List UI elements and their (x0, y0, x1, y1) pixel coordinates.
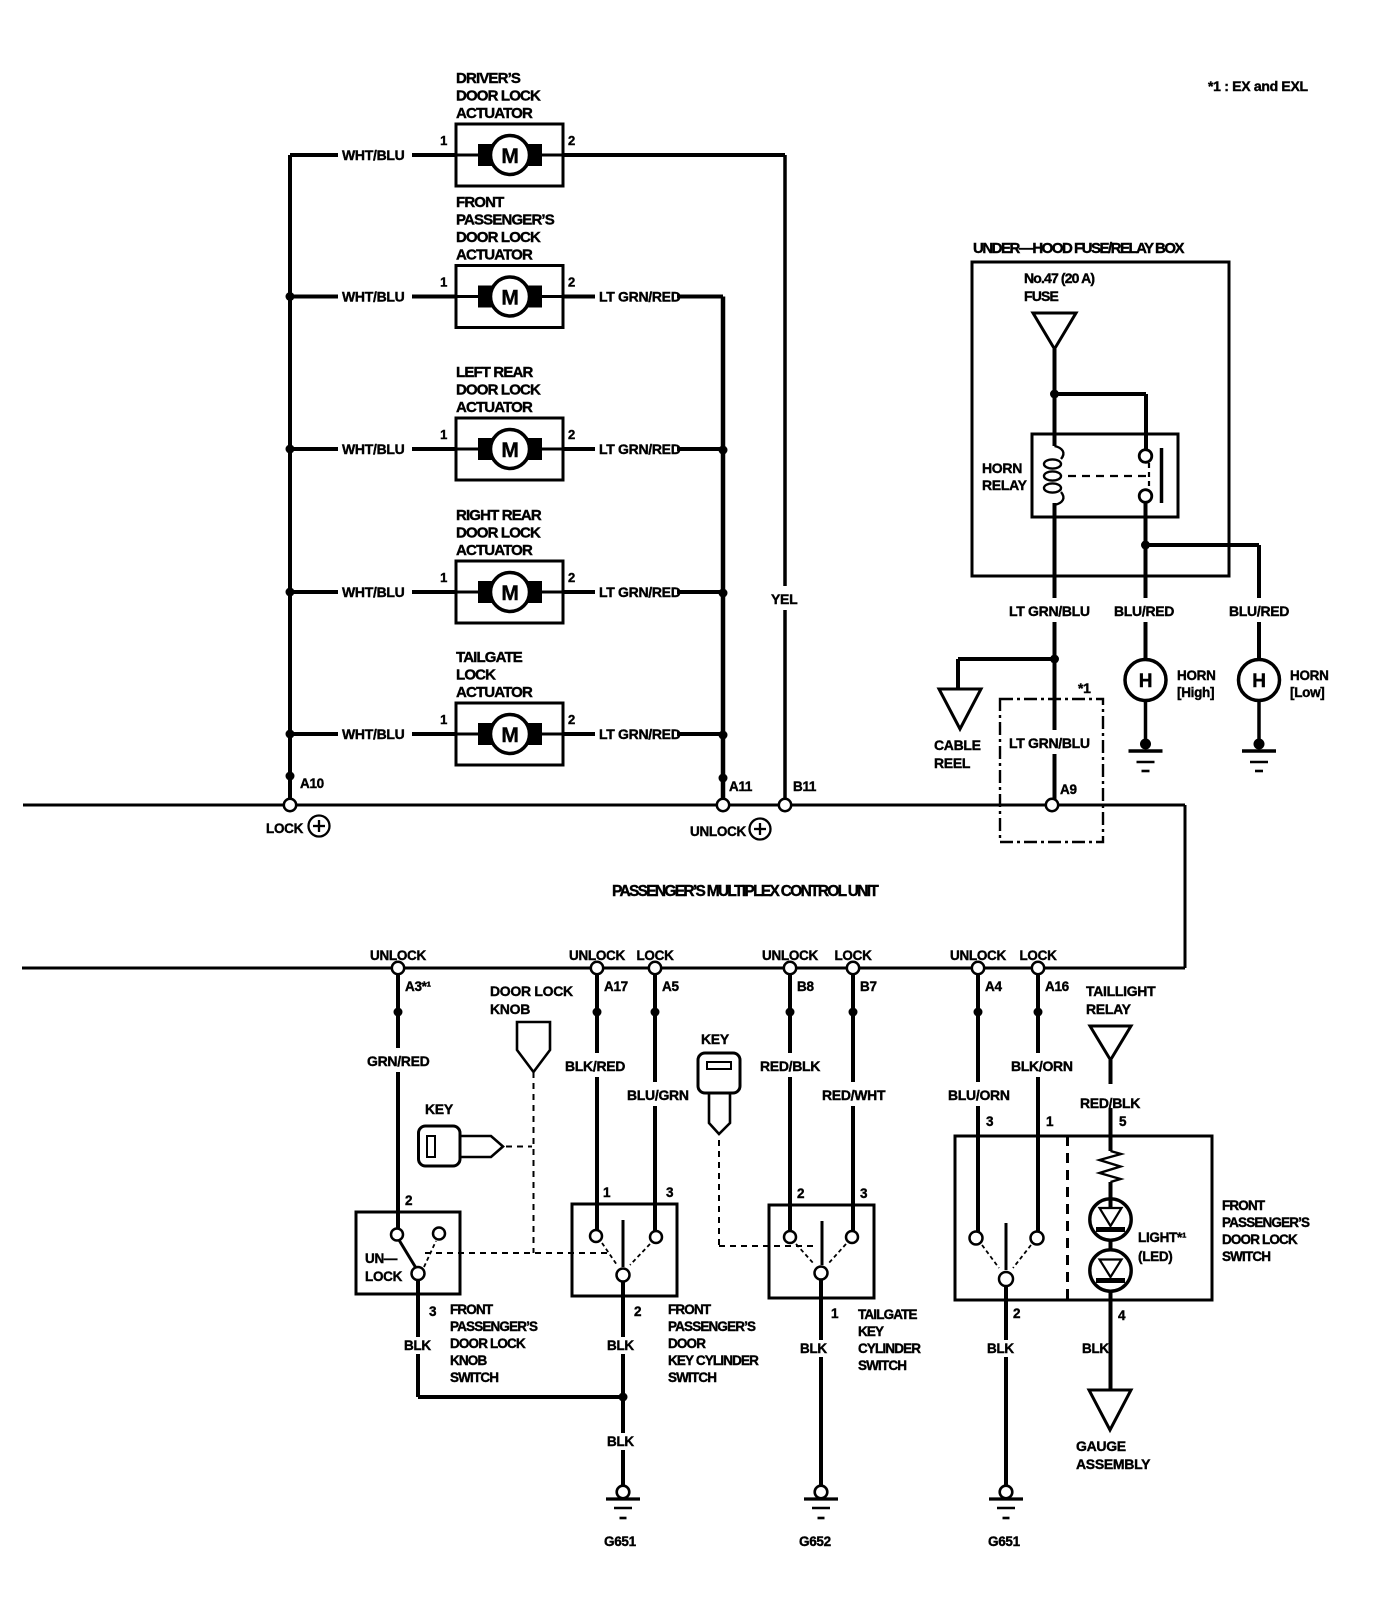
LIGHT (LED) label (1138, 1230, 1187, 1264)
svg-text:G651: G651 (988, 1534, 1021, 1549)
svg-text:A5: A5 (662, 979, 679, 994)
svg-text:KEY CYLINDER: KEY CYLINDER (668, 1353, 759, 1368)
leftrear door lock actuator M (440, 364, 575, 480)
svg-text:[Low]: [Low] (1290, 685, 1325, 700)
svg-text:BLK: BLK (404, 1338, 431, 1353)
svg-text:1: 1 (440, 570, 447, 585)
svg-text:LT GRN/BLU: LT GRN/BLU (1009, 735, 1090, 751)
svg-text:ACTUATOR: ACTUATOR (456, 542, 533, 559)
svg-text:ACTUATOR: ACTUATOR (456, 247, 533, 264)
wire BLK knob switch to ground join (418, 1280, 628, 1402)
junction dots on WHT/BLU bus (286, 292, 295, 781)
svg-text:GAUGE: GAUGE (1076, 1438, 1126, 1454)
wire B8 RED/BLK (757, 974, 820, 1233)
svg-text:B7: B7 (860, 979, 877, 994)
terminal A3 (UNLOCK) (370, 948, 432, 994)
wire LT GRN/RED tailgate (563, 723, 728, 783)
wire BLK tailgate switch to ground G652 (819, 1279, 823, 1486)
terminal A5 (LOCK) (636, 948, 679, 994)
svg-text:A10: A10 (300, 776, 324, 791)
svg-text:DOOR LOCK: DOOR LOCK (450, 1336, 526, 1351)
svg-text:BLU/RED: BLU/RED (1114, 603, 1174, 619)
svg-text:1: 1 (440, 427, 447, 442)
svg-text:4: 4 (1118, 1308, 1126, 1323)
svg-text:3: 3 (986, 1114, 994, 1129)
passenger's multiplex control unit (612, 883, 879, 900)
svg-text:LIGHT*¹: LIGHT*¹ (1138, 1230, 1187, 1245)
terminal A9 (1046, 782, 1077, 811)
svg-text:CYLINDER: CYLINDER (858, 1341, 921, 1356)
node LOCK + (266, 816, 330, 837)
svg-text:A17: A17 (604, 979, 628, 994)
svg-text:1: 1 (440, 712, 447, 727)
svg-text:M: M (501, 287, 518, 310)
wire A17 BLK/RED (562, 974, 625, 1232)
svg-text:KNOB: KNOB (490, 1001, 530, 1017)
svg-text:WHT/BLU: WHT/BLU (342, 441, 405, 457)
svg-text:HORN: HORN (1290, 668, 1329, 683)
driver door lock actuator M (440, 70, 575, 186)
svg-text:2: 2 (568, 570, 575, 585)
ground G652 (799, 1486, 838, 1549)
svg-text:WHT/BLU: WHT/BLU (342, 289, 405, 305)
wire WHT/BLU to rightrear actuator (290, 581, 456, 603)
svg-text:DOOR LOCK: DOOR LOCK (490, 983, 573, 999)
svg-text:[High]: [High] (1177, 685, 1214, 700)
LED 2 (1090, 1240, 1131, 1300)
svg-text:A9: A9 (1060, 782, 1077, 797)
wire fuse node to relay contact (1055, 394, 1147, 450)
wire relay contact to horns BLU/RED (1112, 502, 1289, 660)
ground horn high (1129, 700, 1163, 771)
terminal B8 (UNLOCK) (762, 948, 818, 994)
svg-text:LT GRN/RED: LT GRN/RED (599, 441, 681, 457)
resistor (LED series) (1100, 1151, 1122, 1199)
svg-text:SWITCH: SWITCH (1222, 1249, 1270, 1264)
svg-text:FRONT: FRONT (668, 1302, 712, 1317)
LED 1 (1090, 1199, 1131, 1240)
wire B7 RED/WHT (819, 974, 886, 1233)
wire taillight relay RED/BLK to pin5 (1077, 1060, 1143, 1151)
svg-text:FRONT: FRONT (456, 194, 504, 211)
terminal A11 (717, 779, 753, 811)
svg-text:*1: *1 (1078, 680, 1091, 696)
svg-text:FRONT: FRONT (1222, 1198, 1266, 1213)
svg-text:TAILGATE: TAILGATE (456, 649, 523, 666)
svg-text:WHT/BLU: WHT/BLU (342, 584, 405, 600)
gauge assembly connector (1076, 1390, 1151, 1472)
note *1 : EX and EXL (1208, 78, 1308, 94)
wire control unit lower line (22, 967, 1185, 970)
terminal A4 (UNLOCK) (950, 948, 1006, 994)
wire LOCK bus line (23, 804, 1185, 807)
svg-text:DOOR: DOOR (668, 1336, 706, 1351)
svg-text:PASSENGER’S: PASSENGER’S (668, 1319, 756, 1334)
node UNLOCK + (690, 819, 771, 840)
svg-text:SWITCH: SWITCH (858, 1358, 906, 1373)
dash-dot option box *1 (1000, 680, 1103, 842)
key (tailgate) (698, 1031, 740, 1134)
svg-text:DOOR LOCK: DOOR LOCK (456, 525, 541, 542)
ground horn low (1242, 700, 1276, 771)
horn relay (982, 434, 1178, 517)
svg-text:2: 2 (568, 427, 575, 442)
svg-text:M: M (501, 724, 518, 747)
wire driver actuator pin2 to YEL line (563, 155, 808, 799)
svg-text:A3*¹: A3*¹ (405, 979, 432, 994)
svg-text:A11: A11 (729, 779, 753, 794)
svg-text:BLK: BLK (607, 1338, 634, 1353)
svg-text:RED/BLK: RED/BLK (760, 1058, 820, 1074)
svg-text:DOOR LOCK: DOOR LOCK (456, 88, 541, 105)
wire control unit right edge (1184, 805, 1187, 968)
svg-text:FUSE: FUSE (1024, 288, 1058, 304)
wire LT GRN/RED bus vertical (721, 297, 726, 800)
svg-text:(LED): (LED) (1138, 1249, 1173, 1264)
svg-text:ACTUATOR: ACTUATOR (456, 105, 533, 122)
svg-text:KEY: KEY (425, 1101, 454, 1117)
front passenger's door key cylinder switch (572, 1185, 677, 1296)
svg-text:LT GRN/RED: LT GRN/RED (599, 584, 681, 600)
key (front passenger door) (419, 1101, 504, 1166)
svg-text:TAILGATE: TAILGATE (858, 1307, 918, 1322)
svg-text:WHT/BLU: WHT/BLU (342, 726, 405, 742)
horn low (1239, 660, 1329, 701)
svg-text:M: M (501, 439, 518, 462)
wire BLK lock switch to ground G651 right (1004, 1286, 1008, 1486)
svg-text:2: 2 (405, 1193, 412, 1208)
wire fuse to horn relay coil (1050, 349, 1059, 446)
svg-text:BLK/ORN: BLK/ORN (1011, 1058, 1073, 1074)
svg-text:BLU/RED: BLU/RED (1229, 603, 1289, 619)
svg-text:SWITCH: SWITCH (668, 1370, 716, 1385)
mech link key cylinder dashed (602, 1243, 650, 1265)
wire WHT/BLU to leftrear actuator (290, 438, 456, 460)
svg-text:H: H (1252, 671, 1265, 692)
wire LT GRN/BLU relay coil down to A9 (1006, 517, 1090, 799)
svg-text:BLU/GRN: BLU/GRN (627, 1087, 689, 1103)
wire WHT/BLU to driver actuator (290, 144, 456, 166)
svg-text:H: H (1139, 671, 1152, 692)
terminal B7 (LOCK) (834, 948, 876, 994)
svg-text:KNOB: KNOB (450, 1353, 487, 1368)
wire A3 GRN/RED (364, 974, 430, 1234)
svg-text:A16: A16 (1045, 979, 1070, 994)
svg-text:UNLOCK: UNLOCK (690, 824, 746, 839)
svg-text:1: 1 (440, 133, 447, 148)
wire A5 BLU/GRN (624, 974, 689, 1233)
svg-text:G652: G652 (799, 1534, 831, 1549)
svg-text:PASSENGER’S: PASSENGER’S (456, 212, 555, 229)
lock switch pin labels (984, 1306, 1126, 1357)
wire WHT/BLU to tailgate actuator (290, 723, 456, 745)
svg-text:RED/BLK: RED/BLK (1080, 1095, 1140, 1111)
mech link lever dashed (424, 1241, 612, 1267)
svg-text:PASSENGER’S MULTIPLEX CONTROL: PASSENGER’S MULTIPLEX CONTROL UNIT (612, 883, 879, 900)
svg-text:LT GRN/RED: LT GRN/RED (599, 726, 681, 742)
mech link tailgate key dashed (719, 1140, 818, 1246)
svg-text:GRN/RED: GRN/RED (367, 1053, 430, 1069)
horn high (1125, 660, 1216, 701)
svg-text:A4: A4 (985, 979, 1002, 994)
frontpass door lock actuator M (440, 194, 575, 328)
tailgate door lock actuator M (440, 649, 575, 765)
svg-text:PASSENGER’S: PASSENGER’S (450, 1319, 538, 1334)
mech link knob dashed (533, 1072, 535, 1253)
svg-text:1: 1 (440, 275, 447, 290)
terminal A17 (UNLOCK) (569, 948, 628, 994)
mech link key dashed (506, 1146, 532, 1148)
wire LT GRN/RED front passenger (563, 286, 723, 308)
svg-text:B11: B11 (793, 779, 817, 794)
svg-text:YEL: YEL (771, 591, 798, 607)
svg-text:B8: B8 (797, 979, 814, 994)
svg-text:BLK/RED: BLK/RED (565, 1058, 625, 1074)
svg-text:LT GRN/BLU: LT GRN/BLU (1009, 603, 1090, 619)
wire to cable reel (958, 659, 1055, 689)
front passenger's door lock switch (955, 1114, 1212, 1300)
svg-text:2: 2 (568, 133, 575, 148)
mech link lock switch dashed (982, 1245, 1031, 1268)
svg-text:1: 1 (1046, 1114, 1054, 1129)
svg-text:LEFT REAR: LEFT REAR (456, 364, 534, 381)
under-hood fuse/relay box (972, 240, 1229, 576)
svg-text:1: 1 (831, 1306, 839, 1321)
svg-text:SWITCH: SWITCH (450, 1370, 498, 1385)
wire BLK key cylinder to ground G651 (604, 1281, 634, 1486)
svg-text:M: M (501, 145, 518, 168)
svg-text:DOOR LOCK: DOOR LOCK (1222, 1232, 1298, 1247)
svg-text:UN—: UN— (365, 1251, 398, 1266)
key cylinder switch labels (604, 1302, 759, 1385)
svg-text:*1 : EX and EXL: *1 : EX and EXL (1208, 78, 1308, 94)
svg-text:WHT/BLU: WHT/BLU (342, 147, 405, 163)
wire LT GRN/RED right rear (563, 581, 728, 603)
svg-text:FRONT: FRONT (450, 1302, 494, 1317)
svg-text:3: 3 (860, 1186, 868, 1201)
svg-text:2: 2 (568, 275, 575, 290)
svg-text:1: 1 (603, 1185, 611, 1200)
tailgate switch labels (797, 1306, 921, 1373)
terminal A10 (284, 776, 324, 811)
front passenger's door lock switch label (1222, 1198, 1310, 1264)
front passenger's door lock knob switch (356, 1193, 460, 1294)
fuse No.47 (20 A) (1024, 270, 1094, 349)
ground G651 right (988, 1486, 1023, 1549)
svg-text:RED/WHT: RED/WHT (822, 1087, 886, 1103)
svg-text:KEY: KEY (858, 1324, 884, 1339)
mech link tailgate cylinder dashed (796, 1244, 846, 1264)
wire A4 BLU/ORN (945, 974, 1010, 1234)
tailgate key cylinder switch (769, 1186, 874, 1298)
svg-text:RELAY: RELAY (1086, 1001, 1132, 1017)
svg-text:CABLE: CABLE (934, 737, 981, 753)
svg-text:3: 3 (666, 1185, 674, 1200)
svg-text:DOOR LOCK: DOOR LOCK (456, 382, 541, 399)
wire A16 BLK/ORN (1008, 974, 1073, 1234)
svg-text:2: 2 (634, 1304, 641, 1319)
svg-text:ASSEMBLY: ASSEMBLY (1076, 1456, 1151, 1472)
svg-text:5: 5 (1119, 1114, 1127, 1129)
svg-text:2: 2 (1013, 1306, 1020, 1321)
svg-text:BLK: BLK (1082, 1341, 1109, 1356)
wire BLK LED to gauge assembly (1109, 1300, 1113, 1390)
svg-text:HORN: HORN (1177, 668, 1216, 683)
svg-text:No.47 (20 A): No.47 (20 A) (1024, 270, 1094, 286)
svg-text:BLK: BLK (607, 1434, 634, 1449)
svg-text:ACTUATOR: ACTUATOR (456, 399, 533, 416)
svg-text:LT GRN/RED: LT GRN/RED (599, 289, 681, 305)
svg-text:G651: G651 (604, 1534, 637, 1549)
svg-text:TAILLIGHT: TAILLIGHT (1086, 983, 1156, 999)
svg-text:BLU/ORN: BLU/ORN (948, 1087, 1010, 1103)
svg-text:2: 2 (568, 712, 575, 727)
svg-text:LOCK: LOCK (266, 821, 304, 836)
svg-text:M: M (501, 582, 518, 605)
svg-text:2: 2 (797, 1186, 804, 1201)
svg-text:BLK: BLK (987, 1341, 1014, 1356)
ground G651 (604, 1486, 640, 1549)
svg-text:BLK: BLK (800, 1341, 827, 1356)
svg-text:DOOR LOCK: DOOR LOCK (456, 229, 541, 246)
knob switch labels (401, 1302, 538, 1385)
wire LT GRN/RED left rear (563, 438, 728, 460)
taillight relay (1086, 983, 1156, 1060)
rightrear door lock actuator M (440, 507, 575, 623)
svg-text:3: 3 (429, 1304, 437, 1319)
wire WHT/BLU bus vertical (288, 155, 292, 799)
svg-text:HORN: HORN (982, 460, 1022, 476)
terminal A16 (LOCK) (1019, 948, 1069, 994)
cable reel connector (934, 689, 981, 771)
svg-text:LOCK: LOCK (456, 667, 496, 684)
svg-text:REEL: REEL (934, 755, 971, 771)
svg-text:DRIVER’S: DRIVER’S (456, 70, 521, 87)
svg-text:LOCK: LOCK (365, 1269, 403, 1284)
door lock knob (490, 983, 573, 1072)
svg-text:RIGHT REAR: RIGHT REAR (456, 507, 542, 524)
svg-text:ACTUATOR: ACTUATOR (456, 684, 533, 701)
terminal B11 (779, 779, 817, 811)
wire WHT/BLU to frontpass actuator (290, 286, 456, 308)
svg-text:KEY: KEY (701, 1031, 730, 1047)
svg-text:UNDER—HOOD FUSE/RELAY BOX: UNDER—HOOD FUSE/RELAY BOX (973, 240, 1185, 257)
svg-text:RELAY: RELAY (982, 477, 1028, 493)
svg-text:PASSENGER’S: PASSENGER’S (1222, 1215, 1310, 1230)
